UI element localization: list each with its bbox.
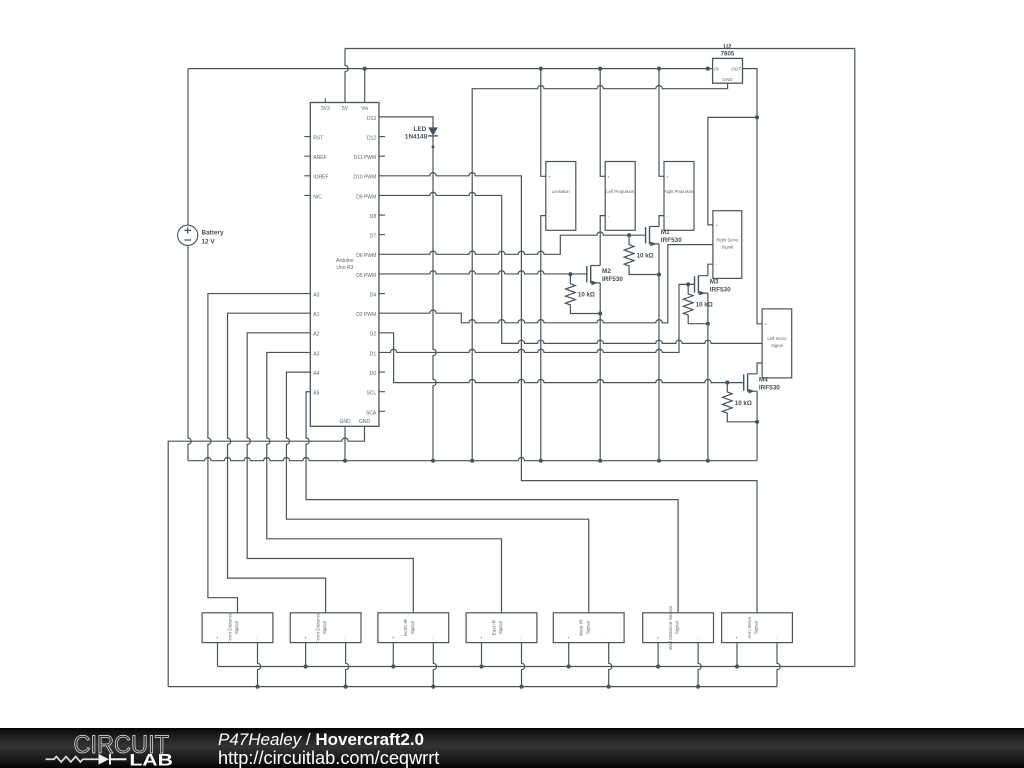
junction block5+ on 5V bus <box>567 664 571 668</box>
wire +12V drop to block 3 <box>659 69 664 177</box>
block sensor 3: North IR Signal <box>378 613 449 643</box>
wire M2 source to ground <box>599 283 601 461</box>
transistor M2 IRF530 <box>587 265 624 285</box>
voltage regulator U2 7805 <box>713 43 743 83</box>
junction block7+ on 5V bus <box>735 664 739 668</box>
transistor M4 IRF530 <box>744 374 781 394</box>
wire block2 minus to ground <box>346 643 349 687</box>
junction U2 GND on ground bus <box>470 459 474 463</box>
wire A3 to sensor block 4 <box>267 352 502 612</box>
wire A2 to sensor block 3 <box>247 333 413 613</box>
wire 5V top row <box>345 48 855 50</box>
resistor R1 10k (M1 gate) <box>624 235 659 274</box>
wire M3 source to ground <box>707 293 709 461</box>
wire A5 to sensor block 6 <box>306 392 678 613</box>
junction Levitation- on ground bus <box>539 459 543 463</box>
resistor R2 10k (M2 gate) <box>566 274 601 313</box>
12V bus wire <box>188 68 708 70</box>
wire Right Propulsion minus to M1 drain <box>659 216 664 227</box>
junction R1 top on M1 gate row <box>627 233 631 237</box>
wire block4 minus to ground <box>522 643 525 687</box>
junction R4 bottom on M4 source <box>755 420 759 424</box>
battery B1 negative wire <box>188 245 191 460</box>
junction R1 bottom on M1 source <box>657 272 661 276</box>
block sensor 5: West IR Signal <box>553 613 624 643</box>
junction Levitation+ on 12V bus <box>539 67 543 71</box>
junction LED on ground bus <box>431 459 435 463</box>
wire bottom ground bus <box>168 686 777 688</box>
wire +12V drop to block 2 <box>600 69 605 177</box>
wire D1 to M3 gate <box>379 284 695 352</box>
svg-text:http://circuitlab.com/ceqwrrt: http://circuitlab.com/ceqwrrt <box>218 748 439 768</box>
LED diode D1 1N4148 <box>405 126 438 141</box>
wire block6 minus to ground <box>698 643 701 687</box>
junction block6- on ground bus <box>696 685 700 689</box>
wire A4 to sensor block 5 <box>286 372 588 613</box>
Arduino Uno R3 U1 <box>304 98 385 426</box>
wire D3 to Right Servo signal <box>379 245 713 323</box>
wire 5V branch to Right Servo <box>708 117 757 224</box>
junction M1 source on ground bus <box>657 459 661 463</box>
block Left Propulsion <box>605 162 635 231</box>
junction R2 top on M2 gate row <box>568 272 572 276</box>
block sensor 7: Arm Servo Signal <box>722 613 793 643</box>
transistor M1 IRF530 <box>646 226 683 246</box>
junction block4- on ground bus <box>519 685 523 689</box>
junction M2 source on ground bus <box>598 459 602 463</box>
wire D6 to M1 gate <box>379 232 646 254</box>
schematic title <box>218 730 439 768</box>
block Right Propulsion <box>664 162 695 231</box>
block Left Servo Signal <box>762 309 792 378</box>
junction M3 source on ground bus <box>706 459 710 463</box>
wire block5 plus to 5V bus <box>568 643 570 667</box>
wire U2 GND return <box>472 83 727 461</box>
block sensor 4: East IR Signal <box>466 613 537 643</box>
wire A1 to sensor block 2 <box>228 313 326 613</box>
block sensor 2: Front Distance Signal <box>290 612 361 643</box>
svg-text:LAB: LAB <box>129 750 173 768</box>
junction block3- on ground bus <box>431 685 435 689</box>
wire D13 to LED <box>379 117 433 128</box>
wire block1 minus to ground <box>258 643 261 687</box>
wire right border 5V <box>854 49 856 667</box>
wire 5V riser <box>345 49 348 103</box>
junction R2 bottom on M2 source <box>598 311 602 315</box>
wire M1 source to ground <box>658 244 660 461</box>
junction block1- on ground bus <box>255 685 259 689</box>
footer bar <box>0 728 1024 768</box>
wire A0 to sensor block 1 <box>208 294 310 613</box>
transistor M3 IRF530 <box>695 276 732 296</box>
wire U2 IN stub <box>708 68 713 70</box>
wire block7 plus to 5V bus <box>736 643 738 667</box>
junction R3 bottom on M3 source <box>706 322 710 326</box>
block Right Servo Signal <box>713 211 742 279</box>
wire block3 plus to 5V bus <box>392 643 394 667</box>
junction block4+ on 5V bus <box>479 664 483 668</box>
junction block2- on ground bus <box>344 685 348 689</box>
CircuitLab logo <box>46 731 173 768</box>
block Levitation <box>546 162 576 231</box>
junction R4 top on M4 gate row <box>725 380 729 384</box>
wire Arduino GND right to bottom ground <box>168 426 364 686</box>
junction U2 IN pin <box>706 67 710 71</box>
junction block5- on ground bus <box>607 685 611 689</box>
block sensor 6: Wall Distance Sensor Signal <box>643 605 714 650</box>
wire block4 plus to 5V bus <box>481 643 483 667</box>
wire Levitation minus to ground bus <box>541 216 546 461</box>
wire Left Servo minus to M4 drain <box>757 363 762 374</box>
wire Arduino GND left drop <box>344 426 346 460</box>
junction LeftProp+ on 12V bus <box>598 67 602 71</box>
wire main ground bus <box>188 458 757 461</box>
resistor R4 10k (M4 gate) <box>722 383 757 422</box>
wire D9 to Left Servo signal <box>379 192 762 343</box>
wire +12V drop to block 1 <box>541 69 546 177</box>
junction R3 top on M3 gate row <box>686 282 690 286</box>
junction block6+ on 5V bus <box>656 664 660 668</box>
junction 5V branch on OUT column <box>755 115 759 119</box>
wire D2 to M4 gate <box>379 333 744 383</box>
junction GND left on ground bus <box>343 459 347 463</box>
junction block3+ on 5V bus <box>391 664 395 668</box>
wire D5 to M2 gate <box>379 271 587 274</box>
block sensor 1: Front Distance Signal <box>202 612 273 643</box>
wire D10 to Arm Servo <box>379 173 757 613</box>
junction block2+ on 5V bus <box>304 664 308 668</box>
battery B1 12V <box>178 225 198 245</box>
wire Vin drop <box>364 69 366 103</box>
wire M4 source to ground <box>756 391 758 461</box>
wire block1 plus riser <box>217 643 219 667</box>
junction RightProp+ on 12V bus <box>657 67 661 71</box>
wire sensor 5V bus <box>218 666 855 668</box>
resistor R3 10k (M3 gate) <box>683 284 712 323</box>
wire block5 minus to ground <box>609 643 612 687</box>
wire block3 minus to ground <box>433 643 436 687</box>
wire block7 minus riser <box>777 643 780 687</box>
wire block2 plus to 5V bus <box>305 643 307 667</box>
junction Vin on 12V bus <box>363 67 367 71</box>
battery B1 positive wire <box>187 69 189 226</box>
wire U2 OUT to servo supplies <box>743 69 763 324</box>
wire Right Servo minus to M3 drain <box>708 264 713 276</box>
wire block6 plus to 5V bus <box>657 643 659 667</box>
svg-text:P47Healey / Hovercraft2.0: P47Healey / Hovercraft2.0 <box>218 730 424 749</box>
node LED cathode <box>432 145 435 148</box>
wire Left Propulsion minus to M2 drain <box>600 216 605 266</box>
wire LED cathode to ground bus <box>433 136 436 461</box>
